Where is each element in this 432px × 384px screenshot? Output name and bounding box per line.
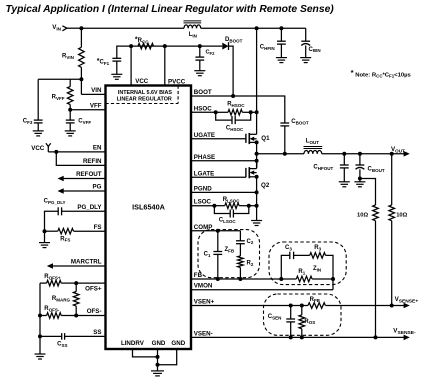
arrow VSENSE- xyxy=(404,335,410,341)
pin label COMP xyxy=(194,224,213,231)
pin label LINDRV xyxy=(121,340,145,347)
pin label HSOC xyxy=(194,105,212,112)
node 10ohm left vsen- xyxy=(374,335,378,339)
internal linear regulator dashed block xyxy=(106,86,179,104)
wire CBIN gnd lead xyxy=(305,46,307,58)
capacitor CBIN xyxy=(301,41,310,45)
wire CHFIN gnd lead xyxy=(280,44,282,58)
svg-text:VMON: VMON xyxy=(194,283,213,290)
wire VMON pin xyxy=(191,289,333,291)
node PVCC rail xyxy=(163,44,167,48)
svg-text:LIN: LIN xyxy=(189,32,197,38)
resistor RHSOC xyxy=(228,110,242,116)
svg-text:RMARG: RMARG xyxy=(52,296,71,302)
svg-text:COMP: COMP xyxy=(194,224,213,231)
wire R3 right down xyxy=(326,255,334,279)
wire CHFOUT gnd lead xyxy=(343,168,345,182)
label CVFF xyxy=(78,119,91,125)
wire rail corner to CBIN xyxy=(305,28,307,41)
wire VCC pin xyxy=(130,46,132,85)
label RFS xyxy=(60,236,70,242)
svg-text:LINDRV: LINDRV xyxy=(121,340,145,347)
svg-text:C2: C2 xyxy=(247,239,254,245)
svg-text:VIN: VIN xyxy=(91,87,102,94)
resistor 10ohm left xyxy=(373,205,379,221)
label R2 xyxy=(247,261,254,267)
capacitor CSEN xyxy=(286,319,295,322)
wire ROS bottom xyxy=(301,329,303,338)
svg-text:BOOT: BOOT xyxy=(194,89,212,96)
label RLSOC xyxy=(223,197,241,203)
pin label REFIN xyxy=(83,158,102,165)
wire CF3 to gnd xyxy=(37,123,39,131)
ground CBOUT xyxy=(354,182,365,187)
VCC terminal Y xyxy=(46,143,51,152)
svg-text:LINEAR REGULATOR: LINEAR REGULATOR xyxy=(117,96,172,102)
capacitor CBOUT xyxy=(356,165,365,169)
node ROS bottom xyxy=(300,335,304,339)
svg-text:CF3: CF3 xyxy=(23,119,33,125)
label ROFS+ xyxy=(44,274,61,280)
wire OFS+ pin xyxy=(76,282,105,284)
node LSOC gnd rail xyxy=(255,204,259,208)
label RVIN xyxy=(62,54,74,60)
node PHASE pin junction xyxy=(255,159,259,163)
wire top rail right xyxy=(201,27,306,29)
inductor LOUT xyxy=(304,147,323,154)
wire to CF3 xyxy=(37,79,39,120)
wire PG_DLY pin xyxy=(62,210,106,212)
label CSEN xyxy=(268,314,282,320)
svg-text:FS: FS xyxy=(94,224,102,231)
svg-text:CBIN: CBIN xyxy=(309,47,321,53)
svg-text:ZFB: ZFB xyxy=(225,247,235,253)
wire VIN pin xyxy=(81,93,105,95)
wire LINDRV pin xyxy=(133,349,158,357)
svg-text:CLSOC: CLSOC xyxy=(219,217,237,223)
pin label OFS+ xyxy=(85,285,102,292)
wire CLSOC branch left xyxy=(214,206,230,214)
svg-text:10Ω: 10Ω xyxy=(357,212,368,218)
wire PG pin xyxy=(59,190,106,192)
resistor RCC xyxy=(138,43,154,49)
wire OFS+ left corner xyxy=(40,282,47,284)
pin label GND xyxy=(152,340,166,347)
label CF3 xyxy=(23,119,33,125)
label CBOOT xyxy=(291,119,309,125)
capacitor CF2 xyxy=(195,57,204,60)
svg-text:RFB: RFB xyxy=(310,297,321,303)
wire CBOUT lead xyxy=(359,154,361,165)
svg-text:R2: R2 xyxy=(247,261,254,267)
node VFF xyxy=(68,108,72,112)
svg-text:LSOC: LSOC xyxy=(194,199,212,206)
wire CHFOUT lead xyxy=(343,154,345,165)
svg-text:CVFF: CVFF xyxy=(78,119,91,125)
ground CHFIN xyxy=(276,58,287,63)
resistor ROFS+ xyxy=(47,280,62,286)
wire PHASE to Q2 drain xyxy=(256,161,258,168)
svg-text:LOUT: LOUT xyxy=(306,139,319,145)
wire CVFF to gnd xyxy=(69,123,71,131)
wire EN to REFIN xyxy=(56,152,105,166)
wire CSEN lead xyxy=(290,306,292,320)
wire SS left xyxy=(40,335,62,337)
wire VIN to rail xyxy=(67,27,82,29)
wire GND2 pin xyxy=(158,349,177,365)
label VSENSE- xyxy=(393,327,416,335)
node LSOC right xyxy=(247,204,251,208)
svg-text:PG: PG xyxy=(93,184,102,191)
pin label FS xyxy=(94,224,102,231)
wire LGATE pin xyxy=(191,176,246,178)
svg-text:REFIN: REFIN xyxy=(83,158,102,165)
label ROFS- xyxy=(44,306,60,312)
svg-text:SS: SS xyxy=(93,329,101,336)
wire COMP pin xyxy=(191,230,240,232)
label RFB xyxy=(310,297,321,303)
svg-text:CHFIN: CHFIN xyxy=(260,45,275,51)
wire HSOC to drain rail xyxy=(251,111,257,113)
svg-text:VFF: VFF xyxy=(90,102,102,109)
svg-text:C1: C1 xyxy=(204,251,211,257)
wire RMARG top xyxy=(75,283,77,291)
label VCC pin xyxy=(135,78,149,85)
resistor R2 xyxy=(238,256,244,268)
node LSOC left xyxy=(212,204,216,208)
IC U1 ISL6540A body xyxy=(106,86,192,350)
wire OFS- left xyxy=(40,315,47,317)
svg-text:PHASE: PHASE xyxy=(194,154,215,161)
wire FS pin xyxy=(74,230,106,232)
svg-text:FB: FB xyxy=(194,272,203,279)
wire CBOUT bottom xyxy=(359,169,361,182)
label 10ohm right xyxy=(396,212,407,218)
pin label LSOC xyxy=(194,199,212,206)
wire 10ohm right top xyxy=(391,154,393,205)
resistor 10ohm right xyxy=(389,205,395,221)
capacitor C1 xyxy=(213,252,222,255)
ground CF2 xyxy=(194,71,205,76)
resistor ROFS- xyxy=(47,313,62,319)
label CHSOC xyxy=(226,126,244,132)
svg-text:RVFF: RVFF xyxy=(52,94,65,100)
wire OFS- pin xyxy=(61,315,105,317)
node RVFF top xyxy=(69,78,71,80)
resistor RFS xyxy=(58,228,74,234)
svg-text:VCC: VCC xyxy=(135,78,149,85)
node phase rail xyxy=(255,152,259,156)
node rail Q1 drain xyxy=(255,26,259,30)
svg-text:CHFOUT: CHFOUT xyxy=(313,164,333,170)
IC name ISL6540A xyxy=(132,203,166,212)
wire top rail left xyxy=(81,27,184,29)
ground IC xyxy=(151,371,164,376)
label RHSOC xyxy=(227,102,245,108)
node R2 FB xyxy=(238,277,242,281)
wire FB pin xyxy=(191,278,296,280)
wire rail to Q1 drain xyxy=(256,28,258,134)
pin label VSEN+ xyxy=(194,299,215,306)
svg-text:CSEN: CSEN xyxy=(268,314,282,320)
svg-text:ROFS-: ROFS- xyxy=(44,306,60,312)
capacitor CSS xyxy=(62,333,65,340)
wire phase to LOUT xyxy=(257,153,304,155)
wire ROFS+ to node xyxy=(61,282,76,284)
wire CHSOC branch left xyxy=(216,112,232,120)
wire LSOC pin xyxy=(191,205,214,207)
wire C1 top xyxy=(217,231,219,252)
wire Q1 source down xyxy=(256,142,258,167)
label CHFIN xyxy=(260,45,275,51)
label VOUT xyxy=(391,146,405,153)
transistor Q2 xyxy=(246,167,257,178)
node CF2 xyxy=(198,44,202,48)
ground CBIN xyxy=(300,58,311,63)
label R3 xyxy=(314,245,321,251)
node RVIN bottom xyxy=(79,77,83,81)
wire C3 branch up xyxy=(281,255,290,279)
capacitor C3 xyxy=(290,252,294,259)
wire CBOOT to phase xyxy=(284,126,286,154)
svg-text:HSOC: HSOC xyxy=(194,105,212,112)
capacitor CF3 xyxy=(34,120,43,123)
svg-text:RHSOC: RHSOC xyxy=(227,102,245,108)
label 10ohm left xyxy=(357,212,368,218)
svg-text:R1: R1 xyxy=(298,269,305,275)
wire REFOUT pin xyxy=(59,178,106,180)
wire DBOOT to BOOT xyxy=(229,46,234,96)
label ZFB xyxy=(225,247,235,253)
wire CSEN bottom xyxy=(290,322,292,338)
wire HSOC to RHSOC xyxy=(216,111,228,113)
wire RVFF top xyxy=(69,79,71,86)
label LIN xyxy=(189,32,197,38)
svg-text:ZIN: ZIN xyxy=(313,266,321,272)
svg-text:ROS: ROS xyxy=(304,319,315,325)
label CHFOUT xyxy=(313,164,333,170)
svg-text:Q2: Q2 xyxy=(261,182,270,189)
svg-text:RFS: RFS xyxy=(60,236,70,242)
svg-text:ROFS+: ROFS+ xyxy=(44,274,61,280)
wire CLSOC branch right xyxy=(233,206,248,214)
svg-text:CSS: CSS xyxy=(57,341,67,347)
pin label OFS- xyxy=(87,308,102,315)
pin label VFF xyxy=(90,102,102,109)
svg-text:CHSOC: CHSOC xyxy=(226,126,244,132)
wire R2 bottom xyxy=(239,268,241,280)
label C3 xyxy=(285,245,292,251)
svg-text:C3: C3 xyxy=(285,245,292,251)
label CLSOC xyxy=(219,217,237,223)
wire UGATE pin xyxy=(191,138,246,140)
wire CHSOC branch right xyxy=(235,112,251,120)
ground Q2 source xyxy=(251,221,262,226)
ground CVFF xyxy=(65,131,76,136)
wire 10ohm left down xyxy=(375,221,377,338)
pin label GND2 xyxy=(171,340,185,347)
wire C1 bottom xyxy=(217,254,219,279)
pin label PGND xyxy=(194,185,212,192)
svg-text:PG_DLY: PG_DLY xyxy=(77,204,102,211)
inductor LIN xyxy=(184,21,202,28)
arrow PG xyxy=(58,188,64,194)
wire rail to RVIN xyxy=(80,28,82,47)
svg-text:CBOUT: CBOUT xyxy=(368,167,385,173)
wire VFF rail xyxy=(38,78,81,80)
svg-text:CBOOT: CBOOT xyxy=(291,119,309,125)
svg-text:UGATE: UGATE xyxy=(194,132,215,139)
svg-text:R3: R3 xyxy=(314,245,321,251)
label ROS xyxy=(304,319,315,325)
dashed box ZFB xyxy=(198,230,260,278)
svg-text:GND: GND xyxy=(152,340,166,347)
capacitor CHFIN xyxy=(277,41,286,44)
wire left vertical OFS xyxy=(39,283,41,354)
capacitor CPGDLY xyxy=(58,207,61,215)
label RMARG xyxy=(52,296,71,302)
wire PGND pin xyxy=(191,191,257,193)
pin label REFOUT xyxy=(76,171,102,178)
node rail CHFIN xyxy=(279,26,283,30)
svg-text:VCC: VCC xyxy=(31,145,45,152)
node CBOUT xyxy=(358,152,362,156)
label Q2 xyxy=(261,182,270,189)
node GND 1 xyxy=(156,355,160,359)
wire GND pin xyxy=(157,349,159,371)
label RCC xyxy=(135,36,149,44)
wire MARCTRL pin xyxy=(49,265,106,267)
svg-text:RVIN: RVIN xyxy=(62,54,74,60)
transistor Q1 xyxy=(246,133,257,144)
label VSENSE+ xyxy=(395,296,419,304)
label CPGDLY xyxy=(44,198,66,204)
resistor RFB xyxy=(308,303,325,309)
node CBOOT phase xyxy=(283,152,287,156)
ground CHFOUT xyxy=(339,182,350,187)
capacitor CLSOC xyxy=(230,210,233,218)
dashed box ZIN xyxy=(269,242,346,285)
label CF1 xyxy=(97,58,110,66)
resistor RVFF xyxy=(67,87,73,105)
pin label SS xyxy=(93,329,101,336)
wire FS node gnd lead xyxy=(44,231,46,242)
node R1 right xyxy=(331,277,335,281)
node 10ohm right vsen+ xyxy=(390,304,394,308)
svg-text:DBOOT: DBOOT xyxy=(225,37,243,43)
svg-text:10Ω: 10Ω xyxy=(396,212,407,218)
node Q2 source xyxy=(255,175,259,179)
pin label UGATE xyxy=(194,132,215,139)
label CF2 xyxy=(206,50,216,56)
pin label FB xyxy=(194,272,203,279)
node HSOC drain rail xyxy=(255,110,259,114)
label RVFF xyxy=(52,94,65,100)
svg-text:PGND: PGND xyxy=(194,185,212,192)
wire VSEN- pin xyxy=(191,336,404,338)
capacitor CBOOT xyxy=(280,123,289,126)
wire FS left xyxy=(45,230,58,232)
node R1 left xyxy=(279,277,283,281)
wire CF2 lead xyxy=(199,46,201,57)
label DBOOT xyxy=(225,37,243,43)
pin label PHASE xyxy=(194,154,215,161)
label R1 xyxy=(298,269,305,275)
pin label VMON xyxy=(194,283,213,290)
wire PVCC pin xyxy=(164,46,166,85)
label CBIN xyxy=(309,47,321,53)
wire RHSOC right xyxy=(242,111,250,113)
node CHFOUT xyxy=(342,152,346,156)
svg-text:VSEN-: VSEN- xyxy=(194,330,213,337)
resistor R3 xyxy=(310,253,326,259)
svg-text:OFS+: OFS+ xyxy=(85,285,102,292)
node CSEN bottom xyxy=(289,335,293,339)
pin label PG_DLY xyxy=(77,204,102,211)
pin label BOOT xyxy=(194,89,212,96)
wire VSEN+ pin xyxy=(191,305,308,307)
resistor RLSOC xyxy=(225,203,239,209)
node HSOC right xyxy=(249,110,253,114)
wire CBOUT to 10ohm xyxy=(360,179,376,206)
label C2 xyxy=(247,239,254,245)
title xyxy=(6,4,335,15)
wire PG_DLY left xyxy=(45,211,59,231)
wire VFF to CVFF xyxy=(69,110,71,120)
wire CF2 to gnd xyxy=(199,60,201,71)
resistor R1 xyxy=(296,276,312,282)
diode DBOOT xyxy=(222,42,228,50)
node OFS+ xyxy=(74,281,78,285)
wire LSOC to RLSOC xyxy=(214,205,224,207)
wire HSOC pin xyxy=(191,111,216,113)
pin label MARCTRL xyxy=(71,259,102,266)
wire C3 to R3 xyxy=(294,254,310,256)
pin label VIN xyxy=(91,87,102,94)
node CSEN top xyxy=(289,304,293,308)
capacitor CVFF xyxy=(66,120,75,123)
node PGND xyxy=(255,190,259,194)
node 10ohm right top xyxy=(390,152,394,156)
wire RMARG bottom xyxy=(75,306,77,315)
ground CF1 xyxy=(111,74,122,79)
svg-text:PVCC: PVCC xyxy=(168,79,186,86)
wire EN pin xyxy=(48,151,105,153)
node OFS- xyxy=(74,314,78,318)
wire 10ohm right down xyxy=(391,221,393,306)
svg-text:ISL6540A: ISL6540A xyxy=(132,203,166,212)
VIN input label xyxy=(52,24,61,31)
note xyxy=(351,68,412,79)
node C1 FB xyxy=(216,277,220,281)
resistor RMARG xyxy=(73,292,79,307)
svg-text:CPG_DLY: CPG_DLY xyxy=(44,198,66,204)
node VIN rail junction xyxy=(79,26,83,30)
wire SS pin xyxy=(65,335,106,337)
wire RFB to vsense+ xyxy=(325,305,404,307)
wire Q2 drain up xyxy=(256,161,258,169)
dashed box CSEN xyxy=(264,294,342,335)
svg-text:EN: EN xyxy=(93,145,102,152)
svg-text:VSEN+: VSEN+ xyxy=(194,299,215,306)
node CBOUT bottom xyxy=(358,177,362,181)
label PVCC pin xyxy=(168,79,186,86)
node OFS- left xyxy=(38,314,42,318)
svg-text:CF2: CF2 xyxy=(206,50,216,56)
wire BOOT pin xyxy=(191,96,285,123)
arrow VSENSE+ xyxy=(404,303,410,309)
VIN input chevron xyxy=(62,26,67,31)
